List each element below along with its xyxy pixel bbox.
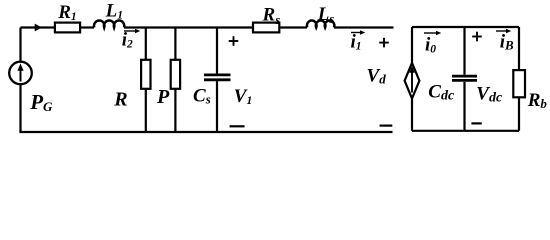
dependent source branch wire lower <box>411 99 413 131</box>
label Ls <box>317 4 335 26</box>
wire between R1 and L1 <box>80 26 94 28</box>
plus sign of Vd <box>379 38 389 48</box>
label Vd <box>367 66 387 87</box>
resistor Rb branch wire upper <box>518 27 520 70</box>
label Cdc <box>428 82 455 104</box>
minus sign of Vd <box>380 124 393 126</box>
resistor P branch wire upper <box>174 28 176 60</box>
plus sign of Vdc <box>472 32 482 42</box>
dependent source branch wire upper <box>411 27 413 63</box>
resistor R branch wire upper <box>145 28 147 60</box>
current arrow i1 <box>351 30 365 35</box>
plus sign of V1 <box>229 36 239 46</box>
svg-text:V1: V1 <box>234 86 252 107</box>
svg-text:i0: i0 <box>425 34 436 55</box>
resistor P <box>171 60 180 89</box>
resistor R <box>141 60 150 89</box>
current arrow i0 <box>424 31 441 36</box>
capacitor Cs branch wire upper <box>216 28 218 74</box>
resistor Rb branch wire lower <box>518 97 520 131</box>
svg-text:i2: i2 <box>122 30 133 51</box>
svg-text:L1: L1 <box>105 1 123 22</box>
resistor P branch wire lower <box>174 89 176 132</box>
svg-text:R: R <box>113 88 127 110</box>
svg-text:PG: PG <box>29 90 53 114</box>
resistor Rb <box>513 70 525 97</box>
label PG <box>29 90 53 114</box>
minus sign of Vdc <box>471 122 481 124</box>
label R1 <box>57 2 76 23</box>
wire bottom of first circuit <box>19 131 392 133</box>
svg-text:Vd: Vd <box>367 66 387 87</box>
wire left vertical lower <box>19 84 21 132</box>
label P <box>156 86 170 108</box>
inductor L1 <box>94 20 124 27</box>
current arrow iB <box>496 29 511 34</box>
resistor Rs <box>253 23 279 33</box>
wire top-left horizontal <box>21 26 55 28</box>
label i0 <box>425 34 436 55</box>
svg-text:Vdc: Vdc <box>476 83 503 105</box>
svg-text:R1: R1 <box>57 2 76 23</box>
current arrow i2 <box>124 29 140 34</box>
capacitor Cdc <box>452 76 477 80</box>
capacitor Cs branch wire lower <box>216 81 218 132</box>
minus sign of V1 <box>230 125 245 127</box>
label i2 <box>122 30 133 51</box>
wire from L1 to Cs node <box>124 26 253 28</box>
label Cs <box>193 86 211 107</box>
capacitor Cdc branch wire upper <box>463 27 465 75</box>
label Rs <box>262 5 281 27</box>
dependent current source diamond <box>405 63 420 99</box>
svg-text:iB: iB <box>500 32 514 53</box>
svg-text:Cs: Cs <box>193 86 211 107</box>
wire between Rs and Ls <box>279 26 307 28</box>
label Vdc <box>476 83 503 105</box>
label Rb <box>527 90 548 111</box>
wire left vertical upper <box>19 28 21 62</box>
wire from Ls to output port <box>334 26 394 28</box>
current source PG <box>9 62 32 85</box>
current direction arrow on top wire <box>35 24 42 32</box>
label iB <box>500 32 514 53</box>
second circuit bottom wire <box>412 130 519 132</box>
svg-text:Rb: Rb <box>527 90 548 111</box>
label R <box>113 88 127 110</box>
svg-text:P: P <box>156 86 170 108</box>
capacitor Cdc branch wire lower <box>463 82 465 131</box>
second circuit top wire <box>412 26 519 28</box>
svg-text:i1: i1 <box>351 32 362 53</box>
label i1 <box>351 32 362 53</box>
inductor Ls <box>307 20 334 27</box>
capacitor Cs <box>204 75 231 80</box>
svg-text:Cdc: Cdc <box>428 82 455 104</box>
label V1 <box>234 86 252 107</box>
resistor R1 <box>55 23 80 33</box>
label L1 <box>105 1 123 22</box>
svg-text:Rs: Rs <box>262 5 281 27</box>
svg-text:Ls: Ls <box>317 4 335 26</box>
resistor R branch wire lower <box>145 89 147 132</box>
